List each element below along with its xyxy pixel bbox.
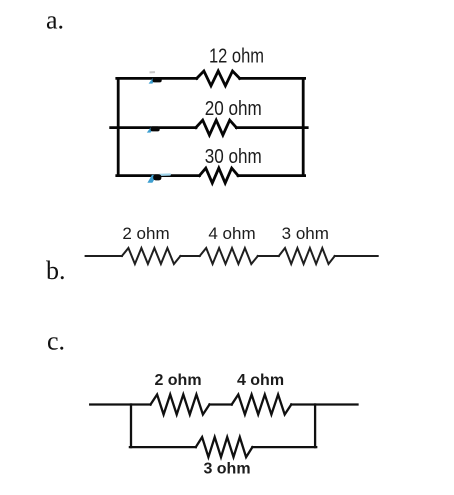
svg-text:4 ohm: 4 ohm [237, 372, 284, 389]
wire: bottom branch right segment [238, 174, 305, 177]
wire: left lead [86, 255, 122, 257]
resistor R-4ohm (c) [232, 395, 292, 415]
resistor R-12ohm [197, 71, 240, 86]
wire: left junction vertical [130, 405, 132, 448]
svg-text:2 ohm: 2 ohm [154, 372, 201, 389]
wire: middle branch left segment [111, 126, 196, 129]
wire: right junction vertical [314, 405, 316, 448]
svg-text:3 ohm: 3 ohm [203, 461, 250, 478]
resistor R-3ohm (b) [279, 248, 335, 264]
wire: top branch right segment [240, 77, 305, 80]
svg-text:c.: c. [47, 327, 65, 356]
resistor R-3ohm (c) [196, 437, 253, 457]
wire: bottom branch right segment [252, 446, 316, 448]
resistor R-20ohm [196, 120, 237, 135]
smudge above top branch [149, 71, 155, 73]
svg-text:3 ohm: 3 ohm [282, 224, 329, 243]
svg-text:2 ohm: 2 ohm [122, 224, 169, 243]
node: parallel network frame (circuit a) [111, 71, 308, 183]
wire: left lead [90, 403, 150, 405]
ink blob on middle branch [151, 126, 160, 131]
svg-text:20 ohm: 20 ohm [205, 98, 262, 120]
wire: middle branch right segment [236, 126, 307, 129]
wire: top branch left segment [117, 77, 197, 80]
wire: bottom branch left segment [117, 174, 200, 177]
wire: right top segment and lead [291, 403, 357, 405]
resistor R-30ohm [199, 168, 238, 183]
ink blob on bottom branch [153, 174, 161, 180]
resistor R-2ohm (b) [122, 248, 180, 264]
wire: between 2 ohm and 4 ohm [210, 403, 232, 405]
wire: bottom branch left segment [130, 446, 196, 448]
wire: left vertical bus [117, 78, 120, 175]
highlight mark on top branch [149, 78, 157, 84]
svg-text:4 ohm: 4 ohm [208, 224, 255, 243]
svg-text:30 ohm: 30 ohm [205, 146, 262, 168]
resistor R-2ohm (c) [151, 395, 210, 415]
svg-text:12 ohm: 12 ohm [209, 46, 264, 68]
highlight streak right of bottom mark [158, 173, 171, 176]
ink blob on top branch [153, 77, 162, 82]
svg-text:b.: b. [46, 256, 66, 285]
wire: right vertical bus [302, 78, 305, 175]
resistor R-4ohm (b) [200, 248, 258, 264]
node: series-parallel network (circuit c) [90, 395, 357, 458]
highlight mark on middle branch [147, 127, 155, 133]
wire: between 4 ohm and 3 ohm [258, 255, 279, 257]
wire: between 2 ohm and 4 ohm [180, 255, 199, 257]
svg-text:a.: a. [46, 6, 64, 35]
highlight mark on bottom branch [147, 175, 157, 183]
wire: right lead [335, 255, 378, 257]
node: series chain (circuit b) [86, 248, 378, 264]
